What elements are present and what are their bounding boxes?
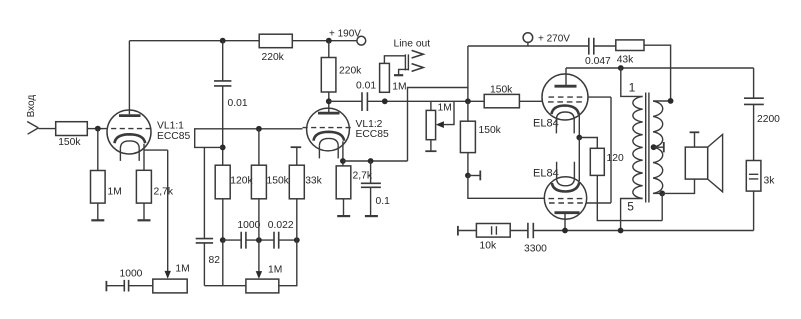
resistor 120k (grid leak VL1:2) [215, 165, 230, 199]
svg-text:1M: 1M [268, 265, 282, 276]
svg-text:33k: 33k [305, 176, 322, 187]
wire 150k down to lower node [467, 153, 469, 176]
capacitor 2200 [744, 98, 764, 104]
terminal bar (tap) [663, 142, 665, 152]
cathode lead EL84 top [578, 115, 580, 138]
screen grid EL84 top (dashed) [549, 96, 585, 98]
svg-text:ECC85: ECC85 [157, 131, 190, 142]
resistor 120 (cathode bias) [590, 148, 604, 175]
svg-text:ECC85: ECC85 [356, 129, 389, 140]
svg-text:2,7k: 2,7k [154, 187, 174, 198]
wire terminal to 10k [458, 230, 477, 232]
terminal bar (aux input) [105, 281, 107, 291]
wire anode to primary pin1 [566, 67, 754, 69]
wire 82 down to tone bus [203, 243, 205, 286]
wire 150k bottom to cap row [258, 199, 260, 240]
node cap row centre [256, 237, 262, 243]
resistor 150k (middle divider) [251, 165, 266, 199]
node cap row left [220, 237, 226, 243]
node secondary top [668, 98, 674, 104]
wire grid node down to 1M [97, 129, 99, 171]
heater arch EL84 bottom [557, 178, 575, 186]
wire cap row left segment [223, 239, 241, 241]
wire cathode bus right [343, 160, 408, 162]
wire secondary top [653, 100, 671, 102]
wire secondary bottom drop [661, 193, 663, 220]
node 1M lineout bottom [382, 98, 388, 104]
svg-text:82: 82 [209, 255, 221, 266]
wire cathode bus rise [408, 88, 468, 162]
heater legs EL84 top [556, 120, 574, 134]
wire node down to bus [222, 240, 224, 286]
resistor 220k (horizontal, plate load) [259, 34, 292, 48]
resistor 220k (vertical, VL1:2 plate load) [321, 58, 336, 93]
potentiometer 1M P3 body [426, 110, 435, 139]
wire input to 150k [38, 128, 55, 130]
wire cap stub to terminal [106, 285, 124, 287]
resistor 150k (input series) [56, 122, 88, 136]
wire 0.01 down to grid node [222, 86, 224, 165]
node 0.1 tap [368, 158, 374, 164]
svg-text:EL84: EL84 [533, 167, 559, 179]
wire 150k top to grid wire [258, 129, 260, 165]
wiper drop to pot P2 [258, 240, 260, 272]
heater arch VL1:2 [319, 138, 338, 146]
wire plate rail [129, 40, 259, 42]
capacitor 82 stem [203, 147, 205, 238]
wire cathode tap to pot feed [144, 149, 168, 151]
node rail / 0.01 tap [220, 38, 226, 44]
potentiometer 1M P2 body [246, 279, 279, 293]
resistor 1M (line out) [380, 63, 390, 92]
node VL1:2 grid / 150k tap [256, 126, 262, 132]
resistor 2,7k (cathode VL1:2) [336, 166, 351, 199]
anode lead VL1:1 up to rail [128, 41, 130, 115]
svg-text:1M: 1M [175, 263, 189, 274]
svg-text:1: 1 [629, 81, 636, 95]
heater legs EL84 bottom [557, 162, 575, 179]
svg-text:120k: 120k [230, 176, 253, 187]
anode lead EL84 top [565, 68, 567, 85]
svg-text:0.01: 0.01 [228, 98, 248, 109]
speaker horn [708, 134, 723, 191]
wire P3 top stem [430, 101, 432, 110]
resistor 150k (to EL84 top grid) [484, 94, 519, 107]
heater leg left VL1:2 [318, 146, 320, 159]
svg-text:2200: 2200 [757, 114, 780, 125]
speaker box [685, 147, 707, 179]
terminal bar (divider) [479, 171, 481, 181]
svg-text:0.1: 0.1 [376, 196, 391, 207]
ground (below 2,7k #2) [337, 215, 350, 217]
resistor 150k (vertical divider) [460, 121, 475, 152]
screen bus vertical [610, 97, 612, 203]
ground (below 0.1) [365, 215, 378, 217]
svg-text:150k: 150k [267, 176, 290, 187]
capacitor 1000 (row) [241, 232, 246, 249]
wire 33k top stub [296, 147, 298, 165]
wire pot feed down (to 1M pot wiper) [167, 150, 169, 271]
resistor 43k (feedback) [616, 40, 644, 51]
svg-text:1M: 1M [392, 81, 406, 92]
ground (below 1M) [91, 219, 104, 221]
svg-text:120: 120 [607, 153, 624, 164]
svg-text:3k: 3k [764, 176, 776, 187]
resistor 1M (grid leak) [91, 171, 106, 204]
svg-text:+ 190V: + 190V [329, 29, 361, 40]
ground (jack) [394, 74, 403, 76]
jack chevron lower [412, 64, 424, 72]
capacitor 0.01 (second coupling) [362, 92, 367, 111]
svg-text:1M: 1M [108, 187, 122, 198]
node cathode VL1:2 [340, 158, 346, 164]
wire cap row mid segment [246, 239, 274, 241]
capacitor 0.1 [361, 183, 381, 187]
wire secondary to speaker [662, 179, 694, 193]
wire P3 bottom stem [430, 140, 432, 152]
speaker terminal bar [690, 131, 700, 133]
svg-text:150k: 150k [479, 125, 502, 136]
wire rail node down to 220k [328, 41, 330, 58]
grid VL1:1 (dashed) [103, 128, 153, 130]
capacitor 0.01 (first coupling) [214, 81, 231, 86]
svg-text:150k: 150k [58, 137, 81, 148]
wire 0.1 to ground [370, 187, 372, 216]
wire plate line drop [753, 68, 755, 98]
wire 270V stub [527, 42, 529, 46]
node rail anode2 [562, 228, 568, 234]
svg-text:0.01: 0.01 [356, 81, 376, 92]
wire 220k to +190V [292, 40, 357, 42]
resistor 3k (boxed) [746, 161, 761, 192]
heater leg left VL1:1 [119, 148, 121, 161]
wire pot P1 left to cap 1000 [129, 285, 153, 287]
triode VL1:1 envelope [107, 110, 151, 154]
wire cathodes to 120 [579, 138, 597, 149]
wire node to EL84 bottom grid [468, 176, 545, 199]
cathode arc VL1:2 [314, 132, 345, 141]
node lower divider [465, 173, 471, 179]
speaker terminal stem [694, 132, 696, 147]
secondary winding [653, 101, 663, 193]
anode bar EL84 bottom [555, 211, 580, 214]
screen grid EL84 bottom (dashed) [549, 202, 585, 204]
capacitor 0.1 stem [370, 161, 372, 183]
cathode arc EL84 top [552, 106, 579, 115]
wire 120k down to cap row [222, 199, 224, 240]
resistor 2,7k (cathode VL1:1) [136, 170, 151, 203]
svg-text:Вход: Вход [26, 95, 37, 118]
arrowhead onto pot P1 [165, 271, 171, 279]
cathode lead VL1:1 down to 2,7k [143, 144, 145, 171]
transformer core [646, 93, 649, 203]
svg-text:0.047: 0.047 [585, 56, 611, 67]
wire junction down to 150k [467, 101, 469, 121]
svg-text:2,7k: 2,7k [353, 171, 373, 182]
wire secondary bottom [653, 192, 662, 194]
capacitor 0.047 [589, 38, 594, 55]
wire ground rail [533, 230, 753, 232]
potentiometer 1M P1 body [153, 279, 187, 293]
capacitor 1000 (input of P1) [124, 280, 128, 292]
svg-text:1000: 1000 [120, 269, 143, 280]
wire 3k to rail [753, 191, 755, 230]
svg-text:3300: 3300 [524, 244, 547, 255]
terminal bar above 33k [291, 146, 302, 148]
pentode EL84 top envelope [542, 74, 588, 120]
node splitter junction [465, 98, 471, 104]
screen lead top [588, 96, 612, 98]
pentode EL84 bottom envelope [544, 177, 586, 219]
anode bar VL1:2 [318, 112, 340, 115]
svg-text:220k: 220k [339, 66, 362, 77]
terminal stub right [468, 175, 480, 177]
control grid EL84 bottom (dashed) [549, 198, 585, 200]
arrowhead onto pot P2 [256, 271, 262, 279]
svg-text:43k: 43k [617, 54, 634, 65]
wire 10k to 3300 [510, 230, 528, 232]
cathode lead VL1:2 [342, 141, 344, 166]
triode VL1:2 envelope [307, 108, 350, 151]
wire rail node down [222, 41, 224, 81]
svg-text:10k: 10k [480, 241, 497, 252]
cathode arc EL84 bottom [552, 183, 579, 192]
node 220k vertical tap [326, 38, 332, 44]
capacitor 82 [196, 239, 213, 243]
wire +270 drop [467, 46, 469, 101]
wire 0.01 to splitter bus [367, 100, 484, 102]
wire jack lower pin [399, 69, 409, 75]
capacitor 0.022 [274, 232, 279, 249]
svg-text:1M: 1M [438, 103, 452, 114]
heater arch VL1:1 [120, 141, 139, 149]
wiper feed P3 [444, 101, 454, 124]
resistor 33k [289, 165, 304, 199]
svg-text:EL84: EL84 [533, 118, 559, 130]
heater leg right VL1:2 [337, 146, 339, 159]
wire 2,7k to ground [143, 203, 145, 220]
anode bar EL84 top [555, 85, 577, 88]
wire 150k to EL84 grid [519, 100, 542, 102]
svg-text:+ 270V: + 270V [538, 33, 570, 44]
anode bar VL1:1 [119, 114, 141, 117]
resistor 10k (boxed) [476, 224, 510, 238]
tap stub [654, 146, 664, 148]
wire 1M to ground [97, 203, 99, 220]
node secondary bottom [659, 191, 665, 197]
wire 43k to secondary top [644, 45, 671, 101]
wire bus to pot P2 left [204, 285, 246, 287]
wire pin1 drop [621, 68, 643, 96]
heater leg right VL1:1 [138, 148, 140, 161]
wire 120 to return bus [597, 175, 662, 220]
terminal bar below P3 [425, 150, 436, 152]
node grid VL1:1 junction [95, 126, 101, 132]
wire B+ rail [468, 45, 589, 47]
svg-text:Line out: Line out [394, 38, 431, 49]
node cap row right [294, 237, 300, 243]
svg-text:5: 5 [627, 200, 634, 214]
terminal bar (feedback in) [457, 226, 459, 236]
wire cap row right down to pot P2 [279, 240, 297, 286]
wire grid jog to VL1:2 [195, 129, 303, 148]
primary winding [633, 96, 643, 198]
wire 2,7k #2 to ground [343, 199, 345, 216]
capacitor 3300 [528, 223, 533, 239]
node secondary tap [651, 144, 657, 150]
terminal +270V [523, 33, 533, 43]
input connector chevron [27, 122, 38, 135]
wire cap row right segment [279, 239, 297, 241]
wire 1M top to jack pin [384, 56, 405, 64]
wire 2200 to 3k [753, 104, 755, 160]
wire plate node to 0.01 [329, 100, 362, 102]
grid VL1:2 (dashed) [303, 127, 352, 129]
screen lead bottom [587, 202, 612, 204]
node VL1:2 plate / 0.01 tap [326, 98, 332, 104]
svg-text:220k: 220k [262, 52, 285, 63]
wire 0.047 to 43k [594, 45, 616, 47]
cathode lead EL84 bottom [578, 138, 580, 182]
svg-text:0.022: 0.022 [268, 220, 294, 231]
node anode/primary tap [618, 65, 624, 71]
arrowhead onto pot P3 [436, 121, 444, 128]
wire 33k bottom to cap row [296, 199, 298, 240]
jack chevron upper [412, 50, 424, 58]
ground (below 2,7k) [138, 219, 151, 221]
svg-text:150k: 150k [490, 84, 513, 95]
wire 150k to grid VL1:1 [87, 128, 103, 130]
jack contact bars [405, 54, 408, 70]
terminal +190V [357, 36, 366, 45]
cathode arc VL1:1 [115, 134, 146, 143]
control grid EL84 top (dashed) [548, 101, 585, 103]
anode lead EL84 bottom [564, 214, 566, 231]
heater arch EL84 top [556, 112, 574, 120]
svg-text:1000: 1000 [237, 220, 260, 231]
wire pin5 from primary [621, 199, 643, 231]
node cathodes junction [576, 135, 582, 141]
node rail pin5 [618, 228, 624, 234]
node 0.01 / VL1:2 grid junction [220, 145, 226, 151]
wire 220k to VL1:2 plate [328, 92, 330, 113]
